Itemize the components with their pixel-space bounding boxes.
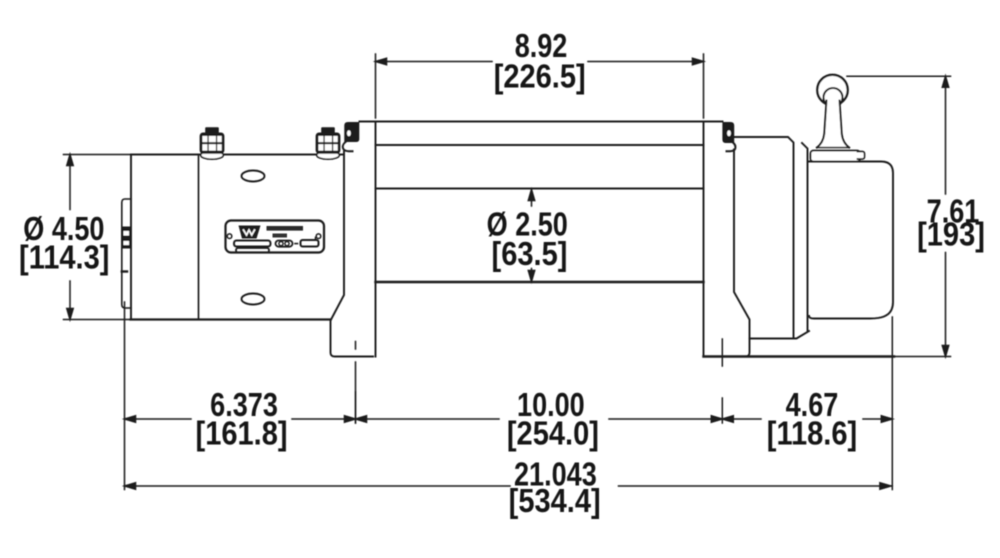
plate text smudges [267,226,304,231]
plate bar block [234,241,271,247]
clutch lever stem [817,101,849,148]
svg-text:[254.0]: [254.0] [507,415,599,452]
right tie-rod corner (black) [722,122,735,151]
terminal bolt 2 [316,127,341,159]
svg-text:[193]: [193] [917,216,985,253]
motor housing outline [131,155,344,320]
bottom row extension verticals [125,302,893,490]
drum tie bar top [360,121,723,123]
dim 8.92: extension lines [376,54,704,118]
drum tie bar bottom edge [376,144,704,146]
dim row 6.373 / 10.00 / 4.67 [125,416,893,422]
plate right rect [301,240,319,247]
svg-text:[118.6]: [118.6] [767,415,857,452]
svg-text:[534.4]: [534.4] [509,482,601,519]
clutch knob [817,75,847,107]
drum top line [376,188,704,190]
oval slot top [242,171,265,182]
drum bottom line [376,281,704,283]
dim 8.92: dimension line [376,61,493,63]
dim 4.50: extension + line [64,155,131,320]
svg-text:[114.3]: [114.3] [19,239,109,276]
oval slot bottom [242,294,265,305]
label plate [226,221,325,253]
gear housing [802,143,893,331]
left tie-rod corner (black) [343,122,360,151]
dim 21.043 line [125,483,891,489]
tab connector block [122,227,131,272]
dim 7.61: extension + line [847,76,951,356]
warn logo badge [239,226,261,239]
dim 2.50: arrows [528,190,534,282]
svg-text:[161.8]: [161.8] [196,415,288,452]
base bottom plate line [704,355,895,357]
svg-text:[63.5]: [63.5] [492,235,568,272]
svg-text:[226.5]: [226.5] [494,58,586,95]
clutch lever plate [811,151,865,162]
terminal bolt 1 [200,127,225,159]
motor end tab [122,199,131,308]
plate screw notches [227,234,232,239]
left drum support [331,122,376,357]
plate pill with circles [276,241,293,247]
right drum support [704,122,750,357]
gear adapter bracket [734,137,809,339]
